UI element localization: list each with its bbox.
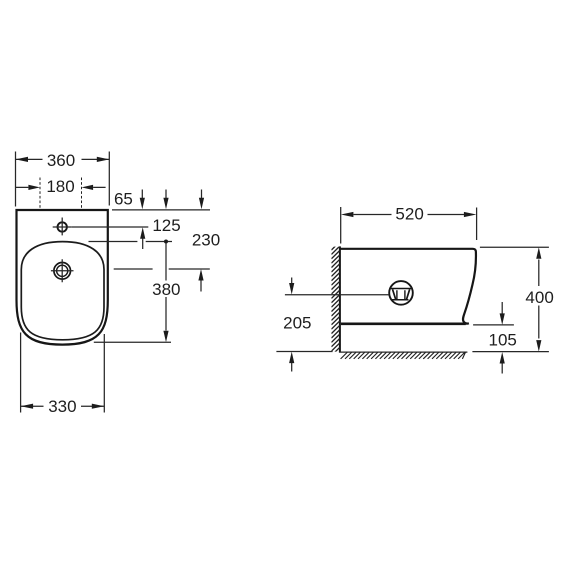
right view: basin right concave edge [463,253,476,324]
right view: wall line [339,246,341,351]
dimension 400 arrowheads [536,247,541,258]
dimension 520 extension lines [341,207,477,244]
drain valve symbol chords [391,289,412,300]
svg-text:400: 400 [525,288,553,307]
drain-height leader line [285,294,389,296]
top reference line for 400 [480,246,549,248]
faucet hole circle [58,222,67,231]
dimension 105 bottom arrow (up) [501,363,503,374]
svg-text:125: 125 [152,216,180,235]
dimension 180 line and outside arrows [16,186,106,188]
dimension 520 arrowheads [341,212,354,217]
dimension 230 top arrow (down) [201,190,203,199]
dimension 330 extension lines [21,333,105,413]
left view: basin outer outline [17,210,108,345]
dimension 520 line [354,214,465,216]
floor hatching [341,347,468,359]
svg-text:360: 360 [47,151,75,170]
dimension 400 line [538,260,540,339]
drain hole inner circle [57,265,68,276]
left view: inner bowl outline [21,242,104,340]
drain valve symbol inner verticals [397,290,405,300]
dimension 230 bottom arrow (up) [200,280,202,292]
faucet leader line [72,226,149,228]
floor line right part [472,351,549,353]
drain valve circle [389,281,413,305]
dimension 205 bottom arrow (up) [291,363,293,372]
drain-level leader line [114,268,210,270]
dimension 360 extension lines [16,152,110,207]
front-edge leader line [94,341,171,343]
dimension 360 line [16,158,110,160]
svg-text:380: 380 [152,280,180,299]
right view: wall hatching [331,242,340,356]
floor line left of wall [276,351,332,353]
dimension 65 bottom arrow (up) [142,238,144,249]
right view: basin bottom edge [341,322,466,325]
svg-text:65: 65 [114,189,133,208]
faucet hole crosshair [53,218,72,236]
dimension 330 line [21,405,105,407]
floor line under basin [339,351,468,353]
svg-text:105: 105 [489,330,517,349]
svg-text:205: 205 [283,313,311,332]
svg-text:330: 330 [48,397,76,416]
basin bottom reference line [473,324,514,326]
dimension 180 dashed extension lines [40,178,82,211]
dimension 360 arrowheads [16,157,29,162]
drain hole crosshair [51,259,74,282]
dimension 125 top arrow (down) [165,190,167,199]
drain hole outer circle [54,263,71,280]
dimension 65 top arrow (down) [141,190,143,199]
svg-text:180: 180 [46,177,74,196]
node dot for 125 dimension [164,240,168,244]
drain valve symbol sides [393,289,410,300]
bowl-top leader line [89,241,173,243]
dimension 105 top arrow (down) [501,302,503,314]
right view: basin top edge [340,249,476,253]
svg-text:230: 230 [192,231,220,250]
dimension 330 arrowheads [21,404,33,409]
dimension 205 top arrow (down) [291,278,293,284]
rear-edge reference line extended right [112,209,210,211]
dimension 380 line [165,243,167,330]
svg-text:520: 520 [395,205,423,224]
